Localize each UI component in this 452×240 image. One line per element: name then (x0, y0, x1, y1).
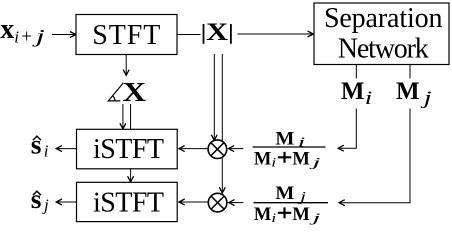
svg-text:i: i (271, 155, 277, 170)
multiplier circle 2 (otimes) (208, 193, 227, 212)
wire Separation Network down stub to M_i (355, 65, 357, 79)
wire x_{i+j} to STFT with arrow (52, 34, 76, 36)
svg-text:STFT: STFT (92, 20, 160, 51)
box Separation Network (314, 3, 449, 65)
svg-text:+: + (21, 26, 32, 47)
svg-text:s: s (31, 128, 42, 159)
svg-text:M: M (341, 78, 365, 105)
wire iSTFT 1 to s-hat_i with arrow (56, 148, 76, 150)
wire multiplier 2 to iSTFT 2 with arrow (179, 201, 208, 203)
svg-text:M: M (292, 205, 309, 225)
wire fraction 1 to multiplier 1 with arrow (229, 148, 244, 150)
wire fraction 2 to multiplier 2 with arrow (229, 202, 244, 204)
wire M_j down and left into fraction 2 with arrow (339, 109, 410, 203)
node M_j mask label (396, 78, 432, 109)
box iSTFT 1 (77, 129, 178, 169)
svg-text:j: j (42, 195, 49, 214)
node M_i mask label (341, 78, 372, 109)
svg-text:M: M (275, 184, 294, 204)
box STFT (76, 15, 177, 55)
svg-text:M: M (292, 149, 309, 169)
svg-text:X: X (206, 19, 228, 46)
wire iSTFT 2 to s-hat_j with arrow (56, 201, 76, 203)
svg-text:M: M (254, 149, 271, 169)
multiplier circle 1 (otimes) (208, 140, 227, 159)
svg-text:i: i (298, 135, 306, 150)
node s-hat_j output label (31, 183, 49, 214)
wire angle X to iSTFT (second, passes behind first box) with arrow (130, 104, 132, 182)
wire STFT down to angle X with arrow (125, 55, 127, 76)
wire multiplier 1 to iSTFT 1 with arrow (179, 148, 208, 150)
wire |X| to Separation Network with arrow (238, 33, 314, 35)
node s-hat_i output label (31, 128, 49, 160)
node x_{i+j} input label (0, 14, 45, 47)
svg-text:iSTFT: iSTFT (93, 188, 164, 219)
node angle X (phase) (108, 76, 146, 107)
wire |X| down to multiplier 1 with arrow (213, 54, 215, 140)
svg-text:M: M (275, 129, 294, 149)
box iSTFT 2 (77, 182, 178, 221)
svg-text:Network: Network (338, 33, 429, 64)
wire angle X to iSTFT (first) with arrow (122, 104, 124, 129)
svg-text:Separation: Separation (324, 3, 443, 34)
svg-text:i: i (14, 27, 19, 46)
svg-text:i: i (44, 142, 49, 161)
svg-text:i: i (365, 89, 373, 109)
fraction M_i / (M_i + M_j) (253, 129, 326, 169)
wire Separation Network down stub to M_j (409, 65, 411, 79)
svg-text:M: M (254, 205, 271, 225)
wire |X| down to multiplier 2 (passes by multiplier 1) with arrow (221, 54, 223, 193)
fraction M_j / (M_i + M_j) (254, 184, 329, 225)
svg-text:X: X (123, 76, 147, 107)
wire M_i down and left into fraction 1 with arrow (338, 109, 356, 149)
svg-text:x: x (0, 14, 14, 45)
svg-text:M: M (396, 78, 420, 105)
wire STFT to |X| (178, 34, 201, 36)
node |X| magnitude (204, 19, 231, 46)
svg-text:s: s (31, 183, 42, 214)
svg-text:iSTFT: iSTFT (93, 134, 164, 165)
svg-text:i: i (271, 210, 277, 225)
